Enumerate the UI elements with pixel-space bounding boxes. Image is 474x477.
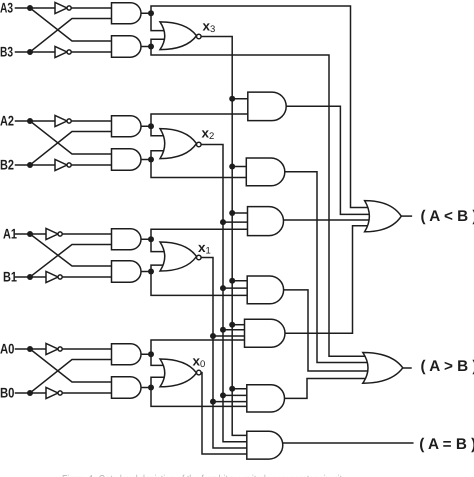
wire B2 input line	[16, 164, 112, 166]
node bit 2 less-term junction	[148, 123, 154, 129]
wire gt0 net to AND U6	[151, 388, 247, 407]
wire U5 output to OR A<B	[285, 226, 370, 334]
AND gate bit 3 less-term	[112, 3, 142, 24]
wire x0 net vertical	[201, 373, 247, 454]
wire junction to NOR input bit 1 upper	[151, 239, 168, 251]
AND gate bit 3 greater-term	[112, 36, 142, 57]
svg-text:A0: A0	[0, 341, 15, 357]
wire x2 tap to U5	[223, 329, 245, 331]
wire A2 input line	[16, 120, 112, 122]
wire junction to NOR input bit 3 lower	[151, 39, 168, 46]
node B1 input junction	[27, 274, 33, 280]
wire AND output to junction bit 1 lower	[141, 271, 151, 273]
inverter on B1	[46, 271, 62, 282]
wire gt1 net to AND U4	[151, 272, 247, 296]
node x3 tap U3	[229, 210, 235, 216]
inverter on A2	[55, 115, 71, 126]
node x2 tap U3	[220, 219, 226, 225]
svg-text:( A > B ): ( A > B )	[421, 358, 474, 375]
node x3 tap U2	[229, 164, 235, 170]
svg-text:A1: A1	[3, 226, 17, 242]
AND gate bit 0 greater-term	[112, 377, 142, 398]
node x1 tap U6	[210, 399, 216, 405]
wire gt2 net to AND U2	[151, 160, 246, 178]
svg-text:( A < B ): ( A < B )	[421, 208, 474, 225]
svg-text:A3: A3	[0, 0, 13, 16]
wire lt0 net to AND U5	[151, 340, 245, 354]
AND gate bit 0 less-term	[112, 344, 142, 365]
AND U7 (x3.x2.x1.x0)	[247, 431, 283, 459]
wire junction to NOR input bit 2 upper	[151, 126, 168, 136]
AND U6 (x3.x2.x1.gt0)	[247, 385, 285, 412]
wire AND output to junction bit 2 upper	[141, 125, 151, 127]
wire U3 output to OR A<B	[284, 219, 371, 221]
wire A0 input line	[16, 348, 112, 350]
wire x3 tap to U4	[232, 280, 247, 282]
wire x3 tap to U3	[232, 212, 247, 214]
wire x3 tap to U5	[232, 324, 244, 326]
AND gate bit 1 greater-term	[112, 261, 142, 282]
wire x1 net vertical	[201, 258, 247, 449]
wire x1 tap to U6	[213, 401, 247, 403]
node A1 input junction	[27, 231, 33, 237]
wire A2 crossover diagonal	[30, 121, 112, 154]
wire A1 input line	[16, 233, 112, 235]
wire B1 input line	[16, 276, 112, 278]
wire lt3 net (NOT-A3.B3 to OR A<B)	[151, 6, 370, 208]
wire x3 net vertical	[201, 37, 247, 436]
OR gate A greater than B	[363, 353, 403, 384]
wire AND output to junction bit 3 lower	[141, 46, 151, 48]
inverter on B3	[55, 46, 71, 57]
wire x3 tap to U2	[232, 166, 246, 168]
wire U2 output to OR A>B	[285, 172, 368, 363]
wire U4 output to OR A>B	[284, 290, 368, 371]
wire x2 tap to U4	[223, 287, 247, 289]
inverter on A0	[46, 343, 62, 354]
node x1 tap U5	[210, 333, 216, 339]
NOR gate x0	[160, 359, 201, 387]
node bit 3 greater-term junction	[148, 44, 154, 50]
node A2 input junction	[27, 118, 33, 124]
inverter on A1	[46, 228, 62, 239]
node bit 3 less-term junction	[148, 10, 154, 16]
node bit 0 less-term junction	[148, 351, 154, 357]
wire gt3 net (A3.NOT-B3 to OR A>B)	[151, 47, 368, 357]
AND gate bit 1 less-term	[112, 229, 142, 250]
wire A1 crossover diagonal	[30, 234, 112, 266]
wire x1 tap to U5	[213, 335, 245, 337]
wire x2 tap to U6	[223, 394, 247, 396]
svg-text:B1: B1	[3, 269, 17, 285]
node B0 input junction	[27, 390, 33, 396]
wire U1 output to OR A<B	[286, 106, 370, 214]
node bit 0 greater-term junction	[148, 385, 154, 391]
wire x3 tap to U1	[232, 98, 248, 100]
wire A3 input line	[16, 7, 112, 9]
node x3 tap U5	[229, 322, 235, 328]
AND U2 (x3.gt2)	[246, 158, 284, 186]
wire B3 crossover diagonal	[30, 19, 112, 53]
AND U4 (x3.x2.gt1)	[247, 276, 283, 304]
AND U5 (x3.x2.x1.lt0)	[245, 319, 286, 347]
OR gate A less than B	[365, 201, 402, 232]
wire AND output to junction bit 0 lower	[141, 387, 151, 389]
NOR gate x1	[160, 242, 201, 271]
node A3 input junction	[27, 5, 33, 11]
wire A3 crossover diagonal	[30, 8, 112, 41]
wire lt2 net to AND U1	[151, 114, 248, 126]
node bit 2 greater-term junction	[148, 157, 154, 163]
node bit 1 less-term junction	[148, 236, 154, 242]
wire junction to NOR input bit 0 upper	[151, 354, 168, 365]
wire junction to NOR input bit 0 lower	[151, 377, 168, 387]
AND U1 (x3.lt2)	[248, 92, 286, 121]
AND gate bit 2 greater-term	[112, 149, 141, 170]
wire AND output to junction bit 0 upper	[141, 353, 151, 355]
node bit 1 greater-term junction	[148, 269, 154, 275]
node x2 tap U5	[220, 327, 226, 333]
svg-text:B0: B0	[0, 385, 15, 401]
wire B3 input line	[16, 51, 112, 53]
wire B0 crossover diagonal	[30, 360, 112, 394]
node x2 tap U6	[220, 392, 226, 398]
svg-text:( A = B ): ( A = B )	[419, 436, 474, 453]
node B3 input junction	[27, 49, 33, 55]
AND U3 (x3.x2.lt1)	[248, 207, 284, 236]
AND gate bit 2 less-term	[112, 116, 142, 137]
svg-text:B2: B2	[0, 157, 14, 173]
wire x2 net vertical	[201, 145, 247, 442]
wire AND output to junction bit 2 lower	[141, 159, 151, 161]
wire AND output to junction bit 1 upper	[141, 238, 151, 240]
wire U6 output to OR A>B	[285, 379, 369, 399]
node B2 input junction	[27, 162, 33, 168]
wire U7 output A=B	[283, 442, 413, 444]
inverter on B2	[55, 159, 71, 170]
node x3 tap U6	[229, 386, 235, 392]
wire A0 crossover diagonal	[30, 349, 112, 382]
wire B2 crossover diagonal	[30, 132, 112, 166]
node x3 tap U1	[229, 96, 235, 102]
node x2 tap U4	[220, 285, 226, 291]
wire junction to NOR input bit 1 lower	[151, 265, 168, 271]
node x3 tap U4	[229, 278, 235, 284]
NOR gate x3	[160, 22, 201, 50]
wire lt1 net to AND U3	[151, 229, 248, 239]
wire OR A>B output	[403, 367, 411, 369]
inverter on A3	[55, 2, 71, 13]
svg-text:B3: B3	[0, 44, 13, 60]
wire OR A<B output	[401, 215, 411, 217]
wire B1 crossover diagonal	[30, 245, 112, 278]
NOR gate x2	[160, 129, 201, 159]
svg-text:A2: A2	[0, 113, 14, 129]
wire x3 tap to U6	[232, 388, 247, 390]
node A0 input junction	[27, 346, 33, 352]
wire junction to NOR input bit 2 lower	[151, 151, 168, 160]
wire x2 tap to U3	[223, 221, 248, 223]
wire B0 input line	[16, 392, 112, 394]
inverter on B0	[46, 387, 62, 398]
wire junction to NOR input bit 3 upper	[151, 13, 168, 30]
wire AND output to junction bit 3 upper	[141, 12, 151, 14]
